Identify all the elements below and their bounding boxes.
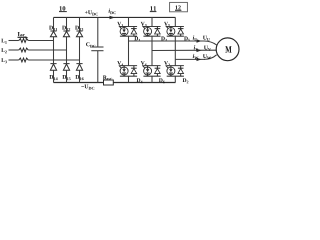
diode D12 [63,30,69,32]
motor M letter [225,46,231,52]
diode D16 [76,63,82,65]
GTO switch V1 with diode D1 [120,26,137,28]
GTO switch V2 with diode D2 [167,65,184,67]
GTO switch V5 with diode D5 [167,26,184,28]
wire diode D11 to phase node [53,37,55,63]
wire phase node to switch V6 [151,51,153,66]
wire diode D15 to bottom bus [66,70,68,82]
diode D6 label [159,78,165,83]
wire bus to switch V5 [174,18,176,27]
current arrow idc [110,16,116,20]
wire L2 to bridge column 2 [28,49,66,51]
GTO switch V4 with diode D4 [120,65,137,67]
wire diode D16 to bottom bus [79,70,81,82]
diode D4 label [137,78,143,83]
block 12 box [170,2,188,11]
label +Udc [85,10,98,15]
diode D14 [50,63,56,65]
inductor L2 zigzag [19,48,28,52]
voltage label UW [203,54,211,59]
wire phase U [129,40,206,42]
wire L3 to bridge column 3 [28,59,79,61]
current label iW [193,54,199,60]
diode D2 label [183,78,189,83]
diode D15 label [62,75,70,80]
diode D11 label [49,26,57,31]
label -Udc [81,85,94,90]
label idc [109,9,116,15]
wire bus to diode D12 [66,18,68,32]
wire V5 to phase node [174,36,176,59]
wire bus to diode D11 [53,18,55,32]
wire L2 lead-in [9,49,19,51]
diode D15 [63,63,69,65]
diode D16 label [75,75,83,80]
diode D11 [50,30,56,32]
block label 12 [175,5,180,9]
block label 11 [150,6,156,10]
switch V5 label [164,22,170,27]
GTO switch V6 with diode D6 [143,65,160,67]
diode D12 label [62,26,70,31]
wire L1 to bridge column 1 [28,40,53,42]
wire diode D12 to phase node [66,37,68,63]
wire V3 to phase node [151,36,153,50]
switch V1 label [117,22,123,27]
wire bus to Cdc [97,18,99,48]
GTO switch V3 with diode D3 [143,26,160,28]
diode D13 [76,30,82,32]
wire phase W [175,58,205,60]
wire phase node to switch V4 [128,41,130,66]
wire bus to switch V1 [128,18,130,27]
inductor L3 zigzag [19,58,28,62]
diode D3 label [161,37,167,42]
diode D1 label [134,37,140,42]
capacitor Cdc label [86,42,95,47]
wire diode D14 to bottom bus [53,70,55,82]
resistor Rdc label [103,76,112,81]
switch V4 label [117,61,123,66]
diode D14 label [49,75,57,80]
switch V6 label [141,61,147,66]
current arrow iV [197,49,202,52]
current label iU [193,35,197,41]
switch V3 label [141,22,147,27]
diode D13 label [75,26,83,31]
wire diode D13 to phase node [79,37,81,63]
current label iV [194,45,199,51]
wire V1 to phase node [128,36,130,41]
wire V4 to bottom bus [128,76,130,82]
current label Iac [18,32,25,37]
capacitor Cdc [91,46,103,48]
current arrow iW [197,58,202,61]
wire L1 lead-in [9,40,19,42]
current arrow iU [197,39,202,42]
diode D5 label [184,37,190,42]
node L3 input label [1,58,7,63]
wire bus to switch V3 [151,18,153,27]
wire Cdc to bottom bus [97,51,99,83]
wire L3 lead-in [9,59,19,61]
wire top DC bus [54,16,176,18]
motor M circle [216,38,239,61]
node L1 input label [1,39,6,44]
wire phase node to switch V2 [174,59,176,65]
block label 10 [60,6,66,10]
inductor L1 zigzag [19,39,28,43]
node L2 input label [1,48,6,53]
voltage label UV [204,46,211,51]
resistor Rdc [104,80,114,85]
wire V2 to bottom bus [174,76,176,82]
wire bus to diode D13 [79,18,81,32]
voltage label UU [203,36,210,41]
wire V6 to bottom bus [151,76,153,82]
switch V2 label [164,61,170,66]
current arrow iac [18,36,26,38]
wire bottom DC bus [54,82,176,84]
wire phase V [152,49,216,51]
